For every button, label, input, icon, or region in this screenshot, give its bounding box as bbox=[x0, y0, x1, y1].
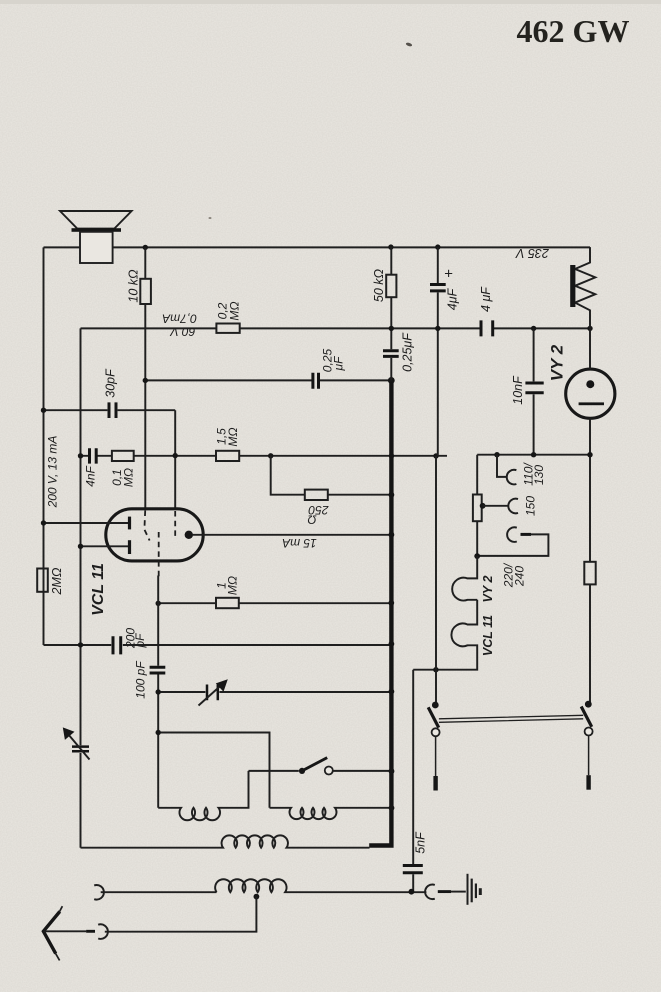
paper speck bbox=[405, 42, 412, 47]
node junction top row / grid wire bbox=[143, 245, 148, 250]
wire top row from speaker to right corner bbox=[44, 246, 591, 248]
svg-text:10 kΩ: 10 kΩ bbox=[127, 269, 141, 303]
heater VY2 filament bump bbox=[452, 556, 477, 600]
svg-text:4μF: 4μF bbox=[446, 287, 460, 310]
resistor 2 MOhm bbox=[37, 569, 48, 592]
svg-text:pF: pF bbox=[133, 633, 147, 649]
svg-text:μF: μF bbox=[332, 356, 346, 372]
node junction bus / H5 bbox=[389, 453, 394, 458]
node junction W2 / H7 bbox=[78, 544, 83, 549]
node junction bus / switch row bbox=[389, 768, 395, 774]
speaker LS bbox=[60, 211, 132, 263]
node junction W1 / H4 bbox=[41, 408, 46, 413]
node junction H2 / heater dropper wire bbox=[587, 326, 592, 331]
wire 5nF vertical W11 bbox=[412, 670, 414, 892]
svg-text:VCL 11: VCL 11 bbox=[481, 615, 495, 656]
node junction 250ohm branch / H5 bbox=[268, 453, 273, 458]
node junction heater row / switch wire bbox=[433, 667, 438, 672]
capacitor 100 pF bbox=[150, 667, 166, 673]
wire anode-cap row H3 bbox=[145, 379, 391, 381]
svg-text:60 V: 60 V bbox=[170, 325, 196, 339]
mains switch left pole bbox=[428, 702, 439, 791]
wire 200pF row from W1 corner to bus bbox=[44, 644, 392, 646]
svg-text:30pF: 30pF bbox=[104, 368, 118, 398]
wire grid-top-cap row H6 bbox=[44, 522, 129, 524]
node junction bus top / H3 bbox=[388, 377, 395, 384]
svg-text:MΩ: MΩ bbox=[122, 468, 136, 487]
node junction bus / H8 bbox=[389, 532, 395, 538]
capacitor 0,25 uF on bus wire bbox=[383, 351, 399, 357]
svg-text:VY 2: VY 2 bbox=[481, 576, 495, 603]
wire anode row H8 to bus bbox=[193, 534, 392, 536]
node junction grid wire / H3 bbox=[143, 378, 148, 383]
svg-text:100 pF: 100 pF bbox=[134, 661, 148, 699]
svg-text:VY 2: VY 2 bbox=[548, 344, 567, 381]
wire antenna coil row bbox=[101, 891, 217, 893]
node junction W2 / H5 bbox=[78, 453, 83, 458]
node junction W9 / H2 bbox=[435, 326, 440, 331]
node junction W1 / H6 bbox=[41, 520, 46, 525]
tube plate bar bottom bbox=[128, 540, 131, 554]
node junction bus / tuning row bbox=[389, 689, 395, 695]
node junction H5b / 10nF wire bbox=[531, 452, 536, 457]
capacitor 5nF bbox=[403, 866, 423, 873]
svg-text:5nF: 5nF bbox=[414, 831, 428, 854]
heater dropper thick bar bbox=[570, 265, 575, 307]
svg-text:240: 240 bbox=[513, 566, 527, 587]
svg-text:50 kΩ: 50 kΩ bbox=[372, 268, 386, 302]
svg-text:MΩ: MΩ bbox=[226, 427, 240, 446]
antenna plug pin bbox=[86, 930, 95, 933]
heater dropper zigzag resistor bbox=[575, 247, 595, 328]
earth plug pin bbox=[438, 890, 451, 893]
tap 110/130 wire and socket bbox=[497, 455, 507, 477]
capacitor 200 pF bbox=[113, 636, 121, 654]
svg-text:150: 150 bbox=[524, 496, 538, 516]
coil L3 antenna primary bbox=[81, 835, 370, 847]
resistor 10 kOhm bbox=[140, 279, 151, 304]
capacitor 4nF bbox=[90, 448, 97, 463]
svg-text:4nF: 4nF bbox=[84, 465, 98, 486]
node junction W4 / osc row bbox=[156, 730, 161, 735]
svg-text:VCL 11: VCL 11 bbox=[90, 563, 107, 616]
empty socket row top bbox=[94, 885, 104, 900]
svg-text:MΩ: MΩ bbox=[228, 301, 242, 320]
resistor 1 MOhm bbox=[216, 598, 239, 608]
resistor 250 Ohm bbox=[305, 490, 328, 500]
resistor 1,5 MOhm bbox=[216, 451, 239, 461]
node junction W2 / 200pF row bbox=[78, 642, 83, 647]
ground symbol bbox=[468, 874, 481, 905]
wire tap dropper vertical bbox=[476, 455, 478, 556]
earth socket bbox=[425, 885, 435, 900]
tap 220/240 socket with plug bbox=[507, 527, 517, 542]
coil L4 antenna input bbox=[215, 879, 426, 892]
svg-text:200 V, 13 mA: 200 V, 13 mA bbox=[46, 436, 60, 509]
svg-text:15 mA: 15 mA bbox=[282, 536, 317, 550]
node junction 5nF / antenna row bbox=[409, 889, 415, 895]
svg-text:2MΩ: 2MΩ bbox=[50, 567, 64, 595]
VY2 anode dot bbox=[586, 380, 594, 388]
wire W4 grid lead down bbox=[157, 576, 159, 808]
resistor tap dropper bbox=[473, 495, 482, 522]
wire 30pF row H4 bbox=[44, 409, 176, 411]
wire left vertical W1 down to 200pF row bbox=[43, 247, 45, 645]
svg-text:10nF: 10nF bbox=[511, 375, 525, 405]
coil L2 RF right bbox=[270, 808, 392, 819]
tube grid 1 dashed bbox=[144, 511, 149, 541]
wire 4uF+ vertical W9 bbox=[437, 247, 439, 456]
tube plate bar top bbox=[128, 517, 131, 530]
resistor mains dropper right bbox=[584, 562, 595, 585]
svg-text:4 μF: 4 μF bbox=[479, 286, 493, 312]
node junction H5b / VY2 wire bbox=[587, 452, 592, 457]
tube VCL11 envelope bbox=[106, 509, 203, 561]
svg-text:Ω: Ω bbox=[307, 513, 316, 527]
node junction switch wire / H5 bbox=[433, 453, 438, 458]
resistor 50 kOhm bbox=[386, 275, 396, 298]
VY2 cathode bar bbox=[579, 402, 604, 405]
svg-text:130: 130 bbox=[532, 465, 546, 485]
wire grid vertical W3 bbox=[144, 247, 146, 508]
rectifier VY2 envelope bbox=[566, 369, 615, 418]
svg-text:0,25μF: 0,25μF bbox=[401, 332, 415, 372]
capacitor 4uF+ electrolytic bbox=[430, 285, 446, 291]
wire 250ohm branch bbox=[271, 456, 392, 495]
antenna socket bbox=[98, 924, 108, 939]
capacitor 30 pF bbox=[109, 402, 116, 418]
svg-text:MΩ: MΩ bbox=[226, 576, 240, 595]
wire mains row H5b bbox=[477, 454, 590, 456]
tube grid 2 dashed to lower circuit bbox=[158, 532, 160, 577]
wire tuning row to bus bbox=[158, 691, 391, 693]
wire 10nF vertical W12 bbox=[533, 328, 535, 454]
svg-text:0,7mA: 0,7mA bbox=[162, 311, 197, 325]
wave band switch bbox=[249, 770, 392, 772]
node junction bus / screen row bbox=[388, 600, 394, 606]
wire left vertical W2 bbox=[80, 328, 82, 847]
heater VCL11 filament bump bbox=[413, 600, 477, 670]
resistor 0,1 MOhm bbox=[112, 451, 134, 461]
tube grid 3 dashed bbox=[174, 511, 176, 536]
wire cathode row H5 left bbox=[81, 455, 448, 457]
node junction bus / 200pF row bbox=[389, 641, 395, 647]
svg-text:235 V: 235 V bbox=[515, 246, 550, 260]
bus thick HT line bbox=[369, 382, 391, 846]
wire VY2 leads bbox=[589, 328, 591, 704]
capacitor 0,25 uF horizontal bbox=[313, 373, 319, 389]
wire screen row 1MOhm to bus bbox=[158, 602, 391, 604]
node junction top row / 4uF wire bbox=[435, 244, 440, 249]
resistor 0,2 MOhm bbox=[216, 324, 239, 333]
svg-text:462 GW: 462 GW bbox=[517, 13, 630, 49]
tap 150 wire and socket bbox=[480, 503, 486, 509]
node junction W4 / screen row bbox=[156, 601, 161, 606]
capacitor trimmer on W2 bbox=[72, 747, 89, 752]
capacitor trimmer tuning bbox=[207, 685, 218, 701]
wire oscillator row from W4 bbox=[158, 733, 269, 808]
node junction heater wire / 220-240 loop bbox=[474, 553, 480, 559]
node junction top row / 50k wire bbox=[388, 244, 393, 249]
wire W3a from H4 corner down to tube bbox=[174, 410, 176, 509]
switch linkage double line bbox=[439, 715, 583, 722]
wire 50k vertical W8 bbox=[390, 247, 392, 380]
node junction H5b / 110-130 tap bbox=[494, 452, 499, 457]
node junction bus / 250ohm row bbox=[389, 492, 395, 498]
wire 60V row H2 bbox=[81, 327, 591, 329]
coil L1 RF left bbox=[158, 771, 248, 820]
node junction W8 / H2 bbox=[389, 326, 394, 331]
antenna symbol bbox=[43, 906, 86, 960]
svg-text:+: + bbox=[444, 266, 453, 283]
node junction W4 / tuning row bbox=[156, 689, 161, 694]
wire cathode row H7 bbox=[81, 545, 129, 547]
node junction W3a / H5 bbox=[173, 453, 178, 458]
coil L4 tap wire bbox=[254, 894, 260, 900]
mains switch right pole bbox=[581, 701, 592, 790]
capacitor 4 uF in H2 bbox=[481, 320, 493, 336]
node junction H2 / 10nF wire bbox=[531, 326, 536, 331]
capacitor 10nF bbox=[525, 383, 543, 393]
node junction bus / coil row bbox=[389, 805, 395, 811]
tube anode pin bbox=[185, 531, 193, 539]
wire switch left vertical W10 bbox=[435, 456, 437, 705]
